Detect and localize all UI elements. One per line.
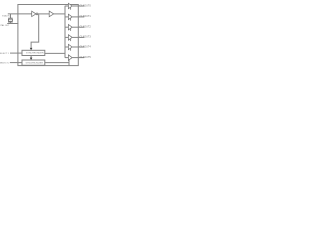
wire box 1 output to bus [45, 52, 65, 54]
svg-text:XTAL OUT: XTAL OUT [0, 24, 10, 27]
svg-text:SYNCHRONIZER: SYNCHRONIZER [26, 53, 44, 55]
IC outline box [18, 5, 78, 66]
background [0, 0, 91, 71]
svg-text:CLKOUT1: CLKOUT1 [80, 15, 91, 18]
svg-text:SYNCHRONIZER: SYNCHRONIZER [25, 63, 43, 65]
output buffer row 5 [65, 44, 91, 50]
wire enable riser to buffer 6 [68, 60, 70, 66]
wire buffer 4 output [72, 36, 84, 38]
wire buffer 2 output [72, 16, 84, 18]
register box 2 [22, 60, 45, 65]
wire buffer 1 output [72, 5, 84, 7]
buffer B2 [68, 14, 72, 19]
svg-text:XTAL IN: XTAL IN [2, 15, 10, 18]
wire buffer 5 output [72, 46, 84, 48]
wire bus to buffer 3 [65, 26, 68, 28]
buffer B6 [68, 55, 72, 60]
output buffer row 6 [65, 55, 91, 60]
wire buffer 3 output [72, 26, 84, 28]
wire bus to buffer 6 [65, 57, 68, 59]
wire bus to buffer 1 [65, 5, 68, 7]
buffer B3 [68, 25, 72, 30]
svg-text:CLKOUT2: CLKOUT2 [80, 26, 91, 29]
register box 1 [22, 50, 45, 55]
crystal Y1 bottom lead [10, 22, 12, 23]
wire branch down from clock line [31, 14, 39, 49]
crystal Y1 body [8, 19, 12, 21]
wire bus to buffer 2 [65, 16, 68, 18]
wire buffer 6 output [72, 57, 84, 59]
svg-text:CLKOUT5: CLKOUT5 [80, 56, 91, 59]
output buffer row 1 [65, 3, 91, 9]
wire bus to buffer 4 [65, 36, 68, 38]
buffer B3 enable stub [70, 29, 72, 31]
wire box 2 output [45, 62, 69, 64]
arrowhead into register box 2 [30, 58, 33, 60]
wire inverter output to buffer U2 [38, 13, 49, 15]
buffer U2 [49, 11, 54, 17]
crystal Y1 top plate [8, 17, 13, 19]
buffer B4 [68, 35, 72, 40]
svg-text:CLKOUT0: CLKOUT0 [80, 4, 91, 7]
svg-text:SELECT 1: SELECT 1 [0, 53, 10, 55]
buffer B5 [68, 44, 72, 49]
svg-text:SELECT 2: SELECT 2 [0, 62, 10, 64]
output buffer row 2 [65, 14, 91, 20]
wire distribution bus [64, 6, 66, 58]
wire XTAL_OUT stub into box [7, 23, 18, 25]
output buffer row 3 [65, 25, 91, 31]
wire box1 to box2 arrow stem [30, 56, 32, 59]
buffer B1 enable stub [70, 7, 72, 9]
svg-text:CLKOUT3: CLKOUT3 [80, 36, 91, 39]
crystal Y1 top lead [10, 14, 12, 18]
svg-text:CLKOUT4: CLKOUT4 [80, 45, 91, 48]
wire control 2 into box 2 [10, 62, 22, 64]
buffer B2 enable stub [70, 18, 72, 20]
buffer B5 enable stub [70, 48, 72, 50]
wire buffer U2 output to distribution bus [54, 13, 65, 15]
wire control 1 into box 1 [10, 52, 22, 54]
arrowhead into register box 1 [30, 48, 33, 50]
buffer B1 [68, 3, 72, 8]
wire bus to buffer 5 [65, 46, 68, 48]
output buffer row 4 [65, 35, 91, 41]
inverter U1 output bubble [36, 13, 38, 15]
op-amp oscillator inverter U1 [32, 11, 36, 16]
buffer B4 enable stub [70, 39, 72, 41]
crystal Y1 bottom plate [8, 21, 13, 23]
wire XTAL_IN to oscillator inverter input [8, 13, 32, 15]
